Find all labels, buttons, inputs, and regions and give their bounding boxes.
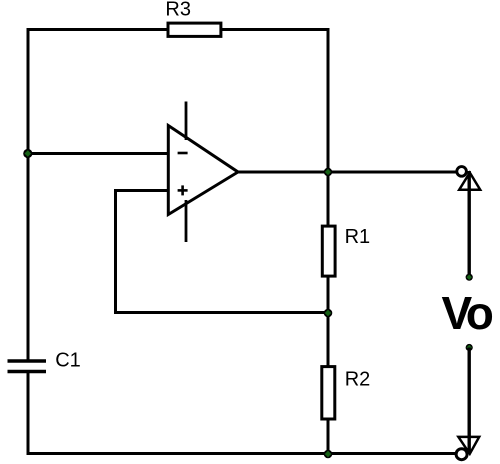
wire top-left horizontal [27, 28, 171, 31]
wire probe bottom vertical [468, 348, 471, 454]
wire feedback horizontal [114, 311, 328, 314]
wire top-right horizontal [220, 28, 330, 31]
resistor R3 [168, 23, 221, 36]
wire left vertical lower [27, 372, 30, 456]
junction node bottom [324, 450, 333, 459]
wire inverting input [28, 152, 169, 155]
op-amp plus symbol [178, 189, 188, 192]
node dot probe bottom [466, 344, 473, 351]
terminal circle bottom [456, 449, 467, 460]
wire R1 to R2 [327, 276, 330, 367]
capacitor C1 bottom plate [8, 370, 47, 374]
svg-text:R2: R2 [345, 369, 371, 391]
resistor R2 [322, 367, 335, 419]
wire feedback vertical [114, 189, 117, 314]
junction node between R1 R2 [324, 309, 333, 318]
wire R2 to bottom rail [327, 418, 330, 455]
probe arrow up [459, 173, 480, 190]
svg-text:C1: C1 [55, 350, 81, 372]
junction node output [324, 168, 332, 176]
resistor R1 [322, 226, 335, 276]
node dot probe top [466, 274, 473, 281]
wire output vertical (R3 to R1) [327, 28, 330, 226]
wire left vertical upper [27, 28, 30, 361]
wire non-inverting input stub [116, 189, 170, 192]
op-amp bottom power pin [185, 200, 188, 242]
svg-text:R3: R3 [165, 0, 191, 21]
op-amp U1 [168, 102, 238, 243]
svg-text:R1: R1 [345, 226, 371, 248]
wire output horizontal [238, 171, 457, 174]
wire probe top vertical [468, 171, 471, 277]
capacitor C1 top plate [8, 359, 47, 363]
svg-text:Vo: Vo [442, 287, 493, 339]
terminal circle top [457, 167, 467, 177]
op-amp minus symbol [178, 152, 188, 155]
junction node inverting input [23, 149, 32, 158]
probe arrow down [458, 437, 479, 454]
op-amp top power pin [185, 102, 188, 141]
wire bottom rail [27, 452, 457, 455]
